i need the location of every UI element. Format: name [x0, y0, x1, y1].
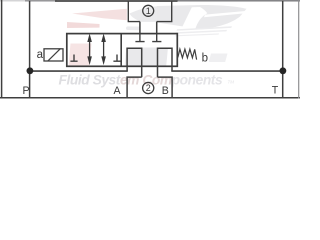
wire P horizontal	[30, 70, 128, 72]
svg-text:b: b	[202, 52, 208, 64]
svg-text:B: B	[162, 85, 169, 97]
svg-text:T: T	[272, 85, 279, 97]
border frame left	[1, 0, 3, 98]
subplate box 2	[127, 77, 172, 98]
flow arrow 2 (double-headed)	[103, 38, 105, 60]
channel gate left	[127, 48, 142, 77]
callout circle 1	[143, 5, 154, 16]
border frame top	[0, 0, 300, 2]
svg-text:TM: TM	[228, 80, 235, 85]
main valve body outline	[67, 34, 178, 67]
channel gate right	[158, 48, 173, 77]
spring b	[178, 49, 197, 59]
svg-text:P: P	[23, 85, 30, 97]
border frame bottom	[0, 97, 300, 99]
watermark gray block right of b	[209, 54, 228, 63]
watermark streak 1	[177, 26, 232, 31]
watermark pink band lower	[67, 22, 100, 28]
svg-text:1: 1	[146, 6, 151, 16]
watermark swoosh silhouette	[157, 5, 247, 29]
node P junction dot	[27, 67, 34, 74]
watermark swoosh white cut	[181, 7, 208, 31]
callout circle 2	[143, 82, 154, 93]
flow arrow 1 (double-headed)	[89, 38, 91, 60]
solenoid a box	[44, 49, 63, 61]
watermark streak 3	[175, 33, 219, 36]
watermark gray streak under box corner	[126, 26, 141, 30]
pilot neck right line	[156, 22, 158, 35]
wire T horizontal	[171, 70, 282, 72]
pilot port T symbol hanging right	[152, 34, 161, 42]
pilot port T symbol hanging left	[135, 34, 144, 42]
wire P riser	[29, 1, 31, 98]
pilot valve box 1	[128, 1, 171, 22]
blocked port T symbol bottom-left	[70, 55, 77, 62]
watermark pink wedge upper	[72, 9, 127, 20]
node T junction dot	[280, 67, 287, 74]
blocked port T symbol bottom-right	[113, 55, 120, 62]
svg-text:A: A	[114, 85, 122, 97]
border frame right	[298, 0, 300, 99]
watermark pink block	[69, 44, 92, 67]
watermark streak 2	[176, 30, 227, 34]
watermark gray block center	[125, 48, 168, 67]
svg-text:2: 2	[146, 83, 151, 93]
svg-text:a: a	[37, 49, 44, 61]
svg-text:Fluid System Components: Fluid System Components	[59, 72, 223, 87]
watermark: FSC logo ghost swoosh	[59, 5, 247, 87]
pilot neck left line	[139, 22, 141, 35]
wire T riser	[282, 1, 284, 98]
watermark gray inside pilot box	[130, 6, 158, 22]
solenoid a diagonal	[48, 49, 61, 61]
valve position divider	[120, 34, 122, 67]
